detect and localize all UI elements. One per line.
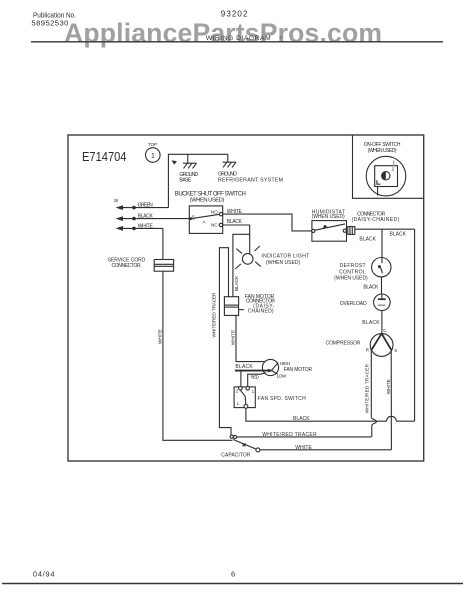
- svg-text:BLACK: BLACK: [235, 364, 253, 370]
- wire white from NO to humidistat: [223, 209, 314, 231]
- svg-text:BUCKET SHUT OFF SWITCH: BUCKET SHUT OFF SWITCH: [175, 191, 246, 197]
- svg-text:(WHEN USED): (WHEN USED): [190, 198, 225, 204]
- fan motor connector: [224, 294, 275, 316]
- on-off switch S3: [366, 156, 406, 196]
- svg-text:WHITE: WHITE: [227, 209, 243, 215]
- compressor: [326, 334, 398, 357]
- svg-text:GREEN: GREEN: [138, 203, 153, 209]
- svg-text:OVERLOAD: OVERLOAD: [340, 301, 367, 307]
- wire white from S: [386, 350, 392, 450]
- svg-text:BLACK: BLACK: [227, 219, 243, 225]
- header title: [206, 35, 283, 42]
- svg-text:WHITE: WHITE: [138, 223, 154, 229]
- svg-text:1: 1: [151, 153, 155, 160]
- svg-text:CHAINED): CHAINED): [248, 309, 274, 315]
- svg-text:CAPACITOR: CAPACITOR: [221, 453, 250, 459]
- on-off switch enclosure: [353, 136, 424, 199]
- svg-text:COMPRESSOR: COMPRESSOR: [326, 341, 361, 347]
- svg-text:DEFROST: DEFROST: [340, 263, 366, 269]
- ground base: [179, 154, 198, 183]
- svg-text:8: 8: [279, 35, 282, 40]
- svg-text:WHITE: WHITE: [295, 445, 312, 451]
- fan speed switch S2: [234, 387, 306, 409]
- svg-text:BLACK: BLACK: [138, 214, 154, 220]
- overload: [340, 294, 391, 311]
- wire black lead: [116, 214, 191, 221]
- svg-text:WHITE/RED TRACER: WHITE/RED TRACER: [211, 292, 217, 338]
- svg-text:S: S: [394, 348, 397, 353]
- svg-text:36: 36: [114, 198, 119, 203]
- header model number: [221, 10, 248, 19]
- wire black top right run: [355, 229, 415, 242]
- wire red fan low: [248, 373, 266, 387]
- wire white/red tracer bottom run: [237, 432, 372, 438]
- svg-text:BASE: BASE: [179, 178, 191, 184]
- svg-text:(WHEN USED): (WHEN USED): [266, 260, 301, 266]
- ground refrigerant system: [218, 154, 283, 183]
- wire white service rail: [158, 228, 233, 440]
- bucket shut off switch label: [175, 191, 246, 203]
- footer page number: [231, 570, 235, 579]
- svg-text:BLACK: BLACK: [390, 232, 407, 238]
- wire white/red tracer from R: [365, 350, 377, 437]
- wire defrost drop: [381, 229, 383, 257]
- svg-text:INDICATOR LIGHT: INDICATOR LIGHT: [261, 254, 309, 260]
- svg-text:REFRIGERANT SYSTEM: REFRIGERANT SYSTEM: [218, 177, 283, 183]
- svg-text:(WHEN USED): (WHEN USED): [368, 148, 397, 154]
- svg-text:L: L: [237, 401, 240, 406]
- svg-text:RED: RED: [251, 374, 260, 379]
- svg-text:04/94: 04/94: [33, 570, 55, 579]
- fan motor M1: [235, 359, 312, 378]
- wire right rail: [414, 229, 416, 421]
- svg-text:BLACK: BLACK: [359, 237, 376, 243]
- service cord connector: [108, 257, 174, 271]
- footer date: [33, 570, 55, 579]
- wire defrost to overload: [363, 277, 381, 294]
- wire black bottom run: [246, 408, 415, 422]
- svg-text:BLACK: BLACK: [362, 320, 380, 326]
- svg-text:AppliancePartsPros.com: AppliancePartsPros.com: [64, 18, 382, 48]
- svg-text:FAN SPD. SWITCH: FAN SPD. SWITCH: [258, 396, 306, 402]
- wire white to compressor S: [260, 445, 392, 451]
- svg-text:WHITE: WHITE: [231, 330, 237, 346]
- wire green lead: [116, 203, 169, 210]
- watermark: [64, 18, 382, 48]
- svg-text:WHITE/RED TRACER: WHITE/RED TRACER: [262, 432, 317, 438]
- header rule: [31, 41, 443, 43]
- svg-text:6: 6: [231, 570, 235, 579]
- svg-text:NC: NC: [211, 222, 218, 227]
- svg-text:FAN MOTOR: FAN MOTOR: [284, 367, 313, 373]
- svg-text:(DAISY-CHAINED): (DAISY-CHAINED): [352, 217, 400, 223]
- svg-text:BLACK: BLACK: [293, 416, 310, 422]
- svg-text:(WHEN USED): (WHEN USED): [334, 275, 368, 281]
- svg-text:2: 2: [392, 167, 395, 172]
- svg-text:E714704: E714704: [82, 149, 127, 164]
- svg-text:58952530: 58952530: [31, 19, 68, 28]
- wire white lead: [116, 223, 163, 230]
- indicator light: [235, 246, 309, 269]
- wire black to fan switch terminal 2: [240, 372, 242, 387]
- svg-text:BLACK: BLACK: [234, 275, 240, 291]
- svg-text:CONNECTOR: CONNECTOR: [112, 263, 141, 269]
- svg-text:WIRING DIAGRAM: WIRING DIAGRAM: [206, 35, 271, 42]
- svg-text:WHITE/RED TRACER: WHITE/RED TRACER: [365, 363, 371, 413]
- header publication number: [31, 11, 76, 28]
- wire direction arrow: [172, 160, 177, 164]
- defrost control: [334, 258, 391, 282]
- capacitor switch blade: [221, 440, 260, 459]
- footer rule: [2, 583, 463, 585]
- junction connector pair: [230, 435, 237, 439]
- humidistat: [312, 209, 347, 241]
- svg-text:(WHEN USED): (WHEN USED): [312, 214, 345, 220]
- svg-text:WHITE: WHITE: [386, 379, 392, 394]
- wire black from NC to indicator light: [223, 219, 250, 254]
- svg-text:WHITE: WHITE: [158, 329, 164, 344]
- wire overload to compressor: [362, 311, 387, 334]
- bucket shut off switch S1: [189, 206, 223, 234]
- svg-text:NO: NO: [211, 209, 218, 214]
- connector daisy-chained: [348, 211, 400, 234]
- svg-text:TOP: TOP: [148, 142, 157, 147]
- diagram border frame: [68, 135, 424, 461]
- wire white to fan motor: [231, 315, 266, 361]
- wire black branch to fan motor connector: [233, 234, 250, 296]
- svg-text:HIGH: HIGH: [280, 361, 290, 366]
- node 1 (TOP callout): [146, 142, 161, 162]
- svg-text:BLACK: BLACK: [363, 285, 379, 291]
- svg-text:LOW: LOW: [277, 374, 287, 379]
- wire white/red tracer left rail: [211, 248, 231, 435]
- wire top rail: [168, 154, 227, 207]
